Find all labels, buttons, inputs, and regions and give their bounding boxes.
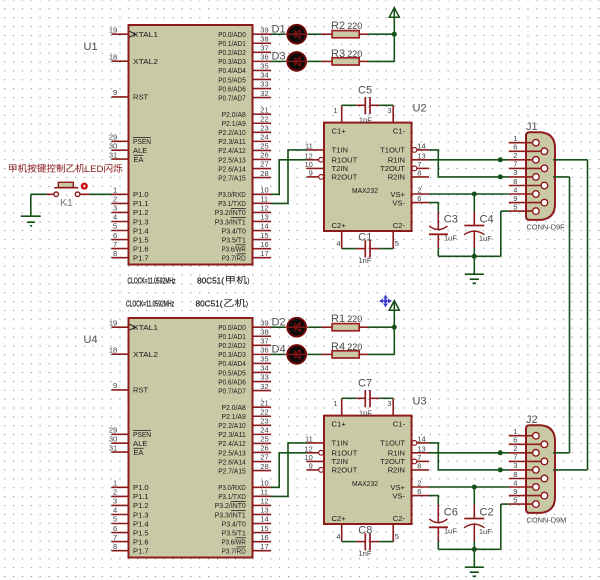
svg-text:11: 11 <box>260 195 268 204</box>
svg-text:P2.7/A15: P2.7/A15 <box>218 173 246 182</box>
svg-text:1: 1 <box>333 106 337 115</box>
svg-text:U1: U1 <box>84 41 98 53</box>
svg-text:C4: C4 <box>480 213 494 225</box>
svg-text:P2.5/A13: P2.5/A13 <box>218 155 246 164</box>
svg-text:P2.6/A14: P2.6/A14 <box>218 164 246 173</box>
svg-text:): ) <box>247 276 250 285</box>
svg-text:3: 3 <box>387 106 391 115</box>
svg-text:26: 26 <box>260 151 268 160</box>
svg-text:25: 25 <box>260 142 268 151</box>
svg-text:PSEN: PSEN <box>133 137 151 146</box>
svg-text:P2.0/A8: P2.0/A8 <box>222 110 246 119</box>
svg-text:P1.3: P1.3 <box>133 217 149 226</box>
svg-text:27: 27 <box>260 160 268 169</box>
svg-text:R4: R4 <box>331 341 345 353</box>
svg-text:P3.3/INT1: P3.3/INT1 <box>215 217 246 226</box>
svg-text:P2.1/A9: P2.1/A9 <box>222 119 246 128</box>
svg-text:34: 34 <box>260 71 268 80</box>
svg-text:CLOCK=11.0592MHz: CLOCK=11.0592MHz <box>126 299 174 308</box>
svg-text:D2: D2 <box>272 316 286 328</box>
svg-text:4: 4 <box>113 213 117 222</box>
svg-text:P3.6/WR: P3.6/WR <box>222 244 247 253</box>
svg-text:R1: R1 <box>331 313 345 325</box>
svg-text:R3: R3 <box>331 48 345 60</box>
svg-text:T1IN: T1IN <box>332 146 348 155</box>
svg-text:24: 24 <box>260 133 268 142</box>
svg-text:P0.4/AD4: P0.4/AD4 <box>218 66 246 75</box>
svg-text:C3: C3 <box>444 213 458 225</box>
svg-text:36: 36 <box>260 53 268 62</box>
svg-text:38: 38 <box>260 34 268 43</box>
svg-text:3: 3 <box>113 204 117 213</box>
svg-text:16: 16 <box>260 240 268 249</box>
svg-text:4: 4 <box>336 239 340 248</box>
svg-text:CONN-D9F: CONN-D9F <box>527 222 566 231</box>
svg-text:35: 35 <box>260 62 268 71</box>
svg-text:C8: C8 <box>358 525 372 537</box>
svg-text:5: 5 <box>113 222 117 231</box>
svg-text:J1: J1 <box>526 121 538 133</box>
svg-text:P0.7/AD7: P0.7/AD7 <box>218 93 246 102</box>
svg-text:P3.1/TXD: P3.1/TXD <box>218 199 246 208</box>
svg-text:10: 10 <box>260 186 268 195</box>
svg-text:D1: D1 <box>272 23 286 35</box>
svg-text:37: 37 <box>260 44 268 53</box>
svg-text:VS-: VS- <box>392 198 405 207</box>
svg-text:6: 6 <box>113 231 117 240</box>
svg-text:11: 11 <box>305 141 313 150</box>
svg-text:1: 1 <box>113 186 117 195</box>
svg-text:39: 39 <box>260 25 268 34</box>
svg-text:P0.5/AD5: P0.5/AD5 <box>218 75 246 84</box>
svg-text:1uF: 1uF <box>479 234 492 243</box>
svg-text:P0.2/AD2: P0.2/AD2 <box>218 48 246 57</box>
svg-text:C7: C7 <box>358 378 372 390</box>
svg-text:14: 14 <box>417 141 425 150</box>
svg-text:P1.4: P1.4 <box>133 226 149 235</box>
svg-text:LED: LED <box>85 164 104 175</box>
svg-text:21: 21 <box>260 105 268 114</box>
svg-text:C1-: C1- <box>393 126 406 135</box>
svg-text:33: 33 <box>260 80 268 89</box>
svg-text:P3.5/T1: P3.5/T1 <box>222 235 246 244</box>
svg-text:P3.4/T0: P3.4/T0 <box>222 226 246 235</box>
svg-text:7: 7 <box>113 240 117 249</box>
svg-text:9: 9 <box>113 88 117 97</box>
svg-text:220: 220 <box>347 21 362 31</box>
svg-text:D3: D3 <box>272 51 286 63</box>
svg-text:29: 29 <box>109 133 117 142</box>
svg-text:2: 2 <box>113 195 117 204</box>
svg-text:C2+: C2+ <box>332 221 347 230</box>
svg-text:): ) <box>246 299 249 308</box>
svg-text:RST: RST <box>133 93 149 102</box>
svg-text:XTAL2: XTAL2 <box>133 57 158 66</box>
svg-text:P1.5: P1.5 <box>133 235 149 244</box>
svg-text:80C51(: 80C51( <box>197 276 224 285</box>
svg-text:P0.6/AD6: P0.6/AD6 <box>218 84 246 93</box>
svg-text:P1.7: P1.7 <box>133 254 149 263</box>
svg-text:13: 13 <box>260 213 268 222</box>
svg-text:P3.7/RD: P3.7/RD <box>222 253 247 262</box>
svg-text:C2-: C2- <box>393 221 406 230</box>
svg-text:9: 9 <box>309 168 313 177</box>
svg-text:P1.6: P1.6 <box>133 244 149 253</box>
svg-text:15: 15 <box>260 231 268 240</box>
svg-text:220: 220 <box>347 49 362 59</box>
svg-text:P1.0: P1.0 <box>133 190 149 199</box>
svg-text:C5: C5 <box>358 85 372 97</box>
svg-text:U3: U3 <box>413 396 427 408</box>
svg-text:P0.0/AD0: P0.0/AD0 <box>218 30 246 39</box>
svg-text:23: 23 <box>260 124 268 133</box>
svg-text:28: 28 <box>260 169 268 178</box>
svg-text:8: 8 <box>417 168 421 177</box>
svg-text:1uF: 1uF <box>444 233 457 242</box>
svg-text:22: 22 <box>260 114 268 123</box>
svg-text:1nF: 1nF <box>359 256 372 265</box>
svg-text:D4: D4 <box>272 344 286 356</box>
svg-text:R2OUT: R2OUT <box>332 173 358 182</box>
svg-text:C1: C1 <box>358 232 372 244</box>
svg-text:C2: C2 <box>480 506 494 518</box>
svg-text:31: 31 <box>109 150 117 159</box>
svg-text:P2.4/A12: P2.4/A12 <box>218 146 246 155</box>
svg-text:P2.2/A10: P2.2/A10 <box>218 128 246 137</box>
svg-text:6: 6 <box>417 194 421 203</box>
svg-text:R2: R2 <box>331 20 345 32</box>
svg-text:MAX232: MAX232 <box>352 186 378 195</box>
svg-text:U2: U2 <box>413 103 427 115</box>
svg-text:K1: K1 <box>60 197 73 209</box>
svg-text:P2.3/A11: P2.3/A11 <box>218 137 246 146</box>
svg-text:ALE: ALE <box>133 146 147 155</box>
svg-text:R2IN: R2IN <box>388 173 405 182</box>
svg-text:EA: EA <box>133 155 144 164</box>
svg-text:8: 8 <box>113 249 117 258</box>
svg-text:P0.1/AD1: P0.1/AD1 <box>218 39 246 48</box>
svg-text:32: 32 <box>260 89 268 98</box>
svg-text:P1.1: P1.1 <box>133 199 149 208</box>
svg-text:12: 12 <box>260 204 268 213</box>
svg-text:XTAL1: XTAL1 <box>133 30 158 39</box>
svg-text:80C51(: 80C51( <box>196 299 223 308</box>
svg-text:P3.2/INT0: P3.2/INT0 <box>215 208 246 217</box>
svg-text:T1OUT: T1OUT <box>380 146 405 155</box>
svg-text:CLOCK=11.0592MHz: CLOCK=11.0592MHz <box>128 276 176 285</box>
svg-text:1nF: 1nF <box>359 115 372 124</box>
svg-text:C1+: C1+ <box>332 126 347 135</box>
svg-text:P1.2: P1.2 <box>133 208 149 217</box>
svg-text:18: 18 <box>109 52 117 61</box>
svg-text:17: 17 <box>260 249 268 258</box>
svg-text:C6: C6 <box>444 506 458 518</box>
svg-text:P3.0/RXD: P3.0/RXD <box>218 190 246 199</box>
svg-text:19: 19 <box>109 25 117 34</box>
svg-text:P0.3/AD3: P0.3/AD3 <box>218 57 246 66</box>
svg-text:J2: J2 <box>526 414 538 426</box>
svg-text:CONN-D9M: CONN-D9M <box>527 515 567 524</box>
svg-text:5: 5 <box>395 239 399 248</box>
svg-text:5: 5 <box>513 202 517 211</box>
svg-text:30: 30 <box>109 141 117 150</box>
svg-text:14: 14 <box>260 222 268 231</box>
svg-text:U4: U4 <box>84 334 98 346</box>
